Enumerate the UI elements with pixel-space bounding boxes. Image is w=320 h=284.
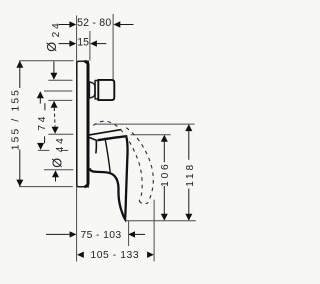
lever blade/collar seam <box>105 138 110 172</box>
svg-text:75 - 103: 75 - 103 <box>81 230 122 241</box>
dimension "52 - 80" row <box>59 24 70 26</box>
svg-text:44: 44 <box>55 135 66 152</box>
knob ring <box>95 81 98 99</box>
lever hub collar <box>89 138 96 154</box>
extension line x=113 (knob front face) <box>112 14 114 80</box>
dimension "15" row <box>59 43 71 45</box>
dashed swung-lever front curve <box>126 128 153 204</box>
dimension "105 - 133" row <box>77 252 84 258</box>
dimension "155 / 155" (left, vertical) <box>19 61 21 88</box>
extension line x=76.8 (wall/plate back face, full height) <box>76 16 78 262</box>
ref line y=122.3 (118 dim top) <box>95 123 195 125</box>
svg-text:155 / 155: 155 / 155 <box>11 88 22 150</box>
dimension "106" (right, vertical) <box>163 141 165 162</box>
shared leader (dashed) between Ø24 and Ø44 arrows <box>53 108 56 127</box>
Ø24 upper arrow (down, at knob top) <box>53 62 55 75</box>
knob neck bump <box>89 82 95 98</box>
Ø44 lower arrow (up, at hub bottom) <box>52 170 59 177</box>
ref line y=220.6 (lever tip level) <box>126 220 196 222</box>
ref line y=80.3 (knob top) <box>48 79 72 81</box>
dimension "118" (right, vertical) <box>188 131 190 160</box>
ref line y=150.4 (hub centre, 74 dim bottom, broken by text) <box>38 149 50 151</box>
svg-text:106: 106 <box>160 161 171 186</box>
plate front face (thick edge) <box>85 61 89 186</box>
escutcheon plate (side view) <box>77 61 89 187</box>
dashed swung-lever tip <box>139 201 147 204</box>
dashed swung-lever back curve <box>93 121 142 201</box>
svg-text:15: 15 <box>77 36 89 48</box>
extension line x=90 (plate front face) <box>89 31 91 61</box>
svg-text:52 - 80: 52 - 80 <box>77 17 111 29</box>
lever boss top edge <box>89 130 121 135</box>
extension line x=128.7 (lever front bulge, to 75-103 row) <box>128 221 130 246</box>
ref line y=134.8 (106 dim top) <box>131 134 171 136</box>
svg-text:74: 74 <box>37 114 48 131</box>
svg-text:105 - 133: 105 - 133 <box>90 250 139 261</box>
svg-text:Ø: Ø <box>45 42 59 52</box>
dimension "74" (left, vertical) <box>39 98 41 104</box>
svg-text:118: 118 <box>185 162 196 187</box>
ref line y=169.8 (hub bottom, Ø44 dim) <box>44 169 73 171</box>
dimension "75 - 103" row <box>46 233 70 235</box>
ref line y=100.4 (knob bottom) <box>48 99 72 101</box>
svg-text:24: 24 <box>51 20 62 37</box>
ref line y=91 (knob centre, 74 dim top) <box>44 90 72 92</box>
knob body (Ø24) <box>98 80 114 100</box>
ref line y=60.8 (plate top, 155 dim) <box>19 60 73 62</box>
Ø44 upper arrow (down, at hub top) <box>52 127 59 134</box>
lever handle blade (solid outline) <box>90 136 128 219</box>
Ø24 lower arrow (up, at knob bottom) <box>51 101 58 108</box>
svg-text:Ø: Ø <box>51 158 65 168</box>
extension line x=154.2 (dashed-lever front, to 105-133 row) <box>153 200 155 262</box>
ref line y=134.2 (hub top, Ø44 dim) <box>48 133 73 135</box>
ref line y=186.6 (plate bottom, 155 dim) <box>19 186 72 188</box>
